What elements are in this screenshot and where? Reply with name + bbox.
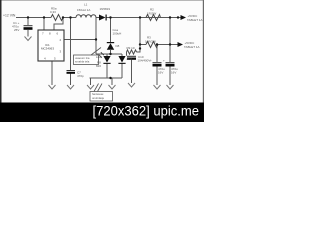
- svg-text:1N5819: 1N5819: [100, 7, 111, 11]
- resistor R9 snubber: [127, 50, 137, 54]
- wire zener stems: [121, 54, 123, 56]
- output arrow second rail: [178, 42, 184, 47]
- wire drop rail to timing cap: [70, 18, 72, 71]
- wire drop rail to R2 ladder: [139, 18, 141, 49]
- svg-text:ZD1: ZD1: [127, 57, 133, 61]
- wire ground stems under LED rail: [90, 78, 92, 85]
- svg-text:MC34063: MC34063: [41, 47, 54, 51]
- svg-text:smahla tela: smahla tela: [75, 60, 90, 64]
- resistor R2 on top rail: [146, 15, 161, 21]
- svg-text:TABLET 1A: TABLET 1A: [184, 45, 200, 49]
- svg-text:[720x362] upic.me: [720x362] upic.me: [93, 103, 200, 118]
- diode D1 1N5819: [99, 15, 106, 21]
- svg-text:100uH: 100uH: [113, 32, 122, 36]
- svg-text:150uH 1A: 150uH 1A: [77, 8, 90, 12]
- svg-text:16V: 16V: [171, 71, 176, 75]
- resistor R3 on second rail: [146, 42, 158, 48]
- output arrow top: [181, 15, 187, 20]
- svg-text:1R/2W: 1R/2W: [147, 12, 156, 16]
- wire drop rail to cap rail: [169, 18, 171, 45]
- wire second rail y=44.5: [140, 44, 146, 46]
- wire elbow rail to IC pin 8: [54, 18, 63, 31]
- capacitor C3 output: [166, 62, 175, 63]
- note box callout lower: [90, 92, 113, 102]
- wire drop to IC pin 7: [43, 18, 45, 31]
- junction dots: [27, 16, 179, 79]
- capacitor C2 output: [153, 62, 162, 63]
- svg-text:820: 820: [96, 64, 101, 68]
- note box callout upper: [74, 55, 99, 65]
- op-amp U1 MC34063 box: [38, 30, 64, 61]
- svg-text:D8: D8: [116, 44, 120, 48]
- ground under C1: [25, 37, 32, 41]
- svg-text:+: +: [163, 59, 165, 63]
- frame right border: [203, 0, 204, 103]
- svg-text:104/400V: 104/400V: [138, 59, 151, 63]
- diode D8 catch vertical: [107, 42, 114, 43]
- ground under LED rail left: [87, 85, 94, 89]
- zener diode ZD: [118, 56, 125, 63]
- ground under C2: [154, 85, 161, 89]
- wire timing cap to ground: [70, 74, 72, 86]
- capacitor C1 input electrolytic: [24, 25, 33, 26]
- resistor Rsc zigzag on rail: [51, 15, 63, 21]
- ground under IC: [49, 85, 56, 89]
- ground symbols (open arrows): [25, 37, 174, 90]
- capacitor C10 snubber: [127, 56, 136, 57]
- svg-text:LED: LED: [96, 55, 103, 59]
- svg-text:+: +: [150, 59, 152, 63]
- ground under C3: [167, 85, 174, 89]
- wire C1 to ground: [27, 30, 29, 37]
- capacitor CT timing: [67, 70, 76, 71]
- LED emission arrows: [101, 52, 104, 55]
- svg-text:10R/2W: 10R/2W: [145, 40, 156, 44]
- inductor L1: [76, 15, 96, 18]
- watermark bar: [0, 103, 204, 123]
- wire IC ground pin: [51, 61, 53, 85]
- svg-text:16V: 16V: [158, 71, 163, 75]
- wire switch node vertical: [95, 18, 97, 55]
- wire snubber cap to ground: [131, 60, 133, 84]
- wire catch diode vertical top: [110, 18, 112, 43]
- wire catch diode vertical bottom: [110, 50, 112, 54]
- svg-text:R9 10: R9 10: [127, 46, 135, 50]
- LED indicator: [103, 56, 110, 63]
- ground under LED rail right: [109, 85, 116, 89]
- wire output cap 1 stems: [156, 45, 158, 63]
- wire LED stems: [106, 54, 108, 56]
- wire drop to C1: [27, 18, 29, 26]
- wire IC pin 2 to switch node: [64, 39, 96, 41]
- wire output cap 2 stems: [169, 45, 171, 63]
- svg-text:L1: L1: [84, 3, 88, 7]
- wire node A horizontal: [96, 53, 122, 55]
- ground under CT: [67, 85, 74, 89]
- ground under snubber: [128, 83, 135, 87]
- svg-text:470p: 470p: [77, 74, 84, 78]
- frame left border: [0, 0, 2, 103]
- wire LED/zener ground rail: [90, 77, 123, 79]
- svg-text:onulnlaqu: onulnlaqu: [92, 96, 105, 100]
- wire main +12V rail y=17.5: [16, 17, 51, 19]
- svg-text:+12 VIN: +12 VIN: [3, 14, 16, 18]
- svg-text:25V: 25V: [14, 28, 19, 32]
- frame top border: [0, 0, 204, 1]
- wire snubber elbow: [137, 49, 141, 53]
- svg-text:0.33: 0.33: [50, 10, 56, 14]
- svg-text:TABLET 1A: TABLET 1A: [187, 18, 203, 22]
